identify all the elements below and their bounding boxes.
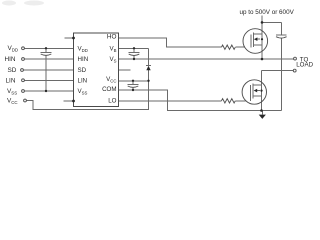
wire VCC terminal down and along bottom xyxy=(27,101,149,110)
junction dot Q2 body stub xyxy=(260,90,262,92)
svg-text:SD: SD xyxy=(78,67,87,74)
wire VB down to diode cathode xyxy=(148,48,150,65)
pin stub IC left row7 xyxy=(64,100,74,102)
diode D1 triangle xyxy=(146,66,150,70)
Q1 gate bar xyxy=(250,34,252,47)
junction dot stub row1 at IC edge xyxy=(72,37,75,40)
wire COM to ground route xyxy=(119,90,282,111)
wire LIN terminal to IC xyxy=(25,79,74,81)
diode D1 cathode bar xyxy=(146,65,151,67)
wire SD terminal to IC xyxy=(24,69,74,71)
wire rail down to C4 xyxy=(280,22,282,35)
capacitor C3 VCC-COM flat plate xyxy=(128,83,139,85)
wire VB pin to bootstrap column xyxy=(119,47,149,49)
Q2 channel xyxy=(252,84,254,99)
wire VSS terminal to IC xyxy=(25,90,74,92)
terminal VDD xyxy=(22,47,25,50)
Q1 drain stub xyxy=(253,33,262,35)
wire C1 bottom to VSS line xyxy=(45,55,47,91)
IC U1 gate driver box xyxy=(74,33,119,107)
junction dot VCC-C3 xyxy=(132,80,134,82)
Q2 body arrow head xyxy=(254,89,258,93)
capacitor C2 curved plate xyxy=(129,54,140,55)
supply rail stub up xyxy=(261,16,263,23)
Q2 drain stub xyxy=(253,84,261,86)
junction dot COM-C3 xyxy=(132,89,134,91)
wire bootstrap column down to bottom VCC route xyxy=(148,81,150,110)
Q2 source stub xyxy=(253,95,261,97)
junction dot VS-C2 xyxy=(133,58,135,60)
wire LO to gate resistor R2 xyxy=(119,100,222,102)
junction dot stub row7 at IC edge xyxy=(72,100,75,103)
wire D1 anode to VCC junction xyxy=(148,70,150,81)
junction dot COM ground node xyxy=(260,109,263,112)
wire C4 bottom down to ground route xyxy=(280,38,282,110)
svg-text:SD: SD xyxy=(8,67,17,74)
junction dot VS source node xyxy=(261,58,264,61)
Q2 gate bar xyxy=(250,85,252,101)
wire C2 top lead xyxy=(133,48,135,52)
Q1 channel xyxy=(252,33,254,47)
wire VS line to load node xyxy=(119,58,262,60)
junction dot VSS-C1 xyxy=(45,90,47,92)
svg-text:COM: COM xyxy=(102,86,116,93)
ground arrow xyxy=(259,115,266,119)
pin stub IC left row1 xyxy=(65,37,74,39)
wire VS node to TO LOAD terminal xyxy=(262,58,293,60)
wire HIN terminal to IC xyxy=(25,58,74,60)
wire C3 top lead xyxy=(132,81,134,85)
svg-text:LIN: LIN xyxy=(6,78,16,85)
capacitor C2 bootstrap flat plate xyxy=(129,52,140,54)
Q2 body arrow stub xyxy=(256,90,260,92)
resistor R1 high-side gate xyxy=(221,45,235,49)
resistor R2 low-side gate xyxy=(221,99,235,103)
transistor Q2 circle xyxy=(242,80,266,104)
svg-text:HIN: HIN xyxy=(5,56,16,63)
svg-text:HO: HO xyxy=(107,33,117,40)
terminal LIN xyxy=(22,79,25,82)
terminal VCC xyxy=(24,99,27,102)
terminal TO LOAD upper xyxy=(294,57,297,60)
wire R1 to Q1 gate xyxy=(235,46,245,48)
Q1 drain-source vertical xyxy=(261,22,263,59)
terminal TO LOAD lower xyxy=(293,69,296,72)
terminal SD xyxy=(21,69,24,72)
Q1 source stub xyxy=(253,44,262,46)
terminal VSS xyxy=(22,90,25,93)
junction dot VDD-C1 xyxy=(45,47,47,49)
junction dot Q1 body stub xyxy=(261,38,263,40)
transistor Q1 circle xyxy=(243,29,268,54)
wire VCC pin to bootstrap column xyxy=(119,80,149,82)
pin stub IC right row4 xyxy=(119,69,131,71)
wire C2 bottom lead to VS line xyxy=(133,56,135,60)
wire VDD terminal to IC xyxy=(25,47,74,49)
svg-text:LO: LO xyxy=(108,98,116,105)
junction dot D1 anode VCC xyxy=(147,80,149,82)
svg-text:HIN: HIN xyxy=(78,56,89,63)
junction dot supply rail xyxy=(261,21,264,24)
wire C3 bottom lead to COM line xyxy=(132,87,134,90)
Q2 drain-source vertical xyxy=(261,70,263,110)
junction dot VB-C2 xyxy=(133,47,135,49)
ground stem xyxy=(261,111,263,115)
Q1 body arrow stub xyxy=(256,38,260,40)
Q1 body arrow head xyxy=(254,37,258,41)
wire bypass bus upper VDD to C1 xyxy=(45,48,47,52)
wire Q2 drain to TO LOAD terminal xyxy=(262,69,294,71)
terminal HIN xyxy=(22,58,25,61)
faint scan artifact top-left xyxy=(2,1,44,6)
supply rail horizontal xyxy=(262,21,281,23)
svg-text:up to 500V or 600V: up to 500V or 600V xyxy=(240,9,295,16)
wire HO with jog to gate resistor R1 xyxy=(119,38,222,47)
capacitor C1 VDD-VSS flat plate xyxy=(41,51,52,53)
svg-text:LOAD: LOAD xyxy=(296,62,313,69)
svg-text:LIN: LIN xyxy=(78,78,88,85)
capacitor C1 curved plate xyxy=(41,54,52,55)
capacitor C4 bus flat plate xyxy=(276,34,287,36)
capacitor C4 curved plate xyxy=(276,37,287,38)
wire R2 to Q2 gate xyxy=(235,100,245,102)
capacitor C3 curved plate xyxy=(128,86,139,87)
